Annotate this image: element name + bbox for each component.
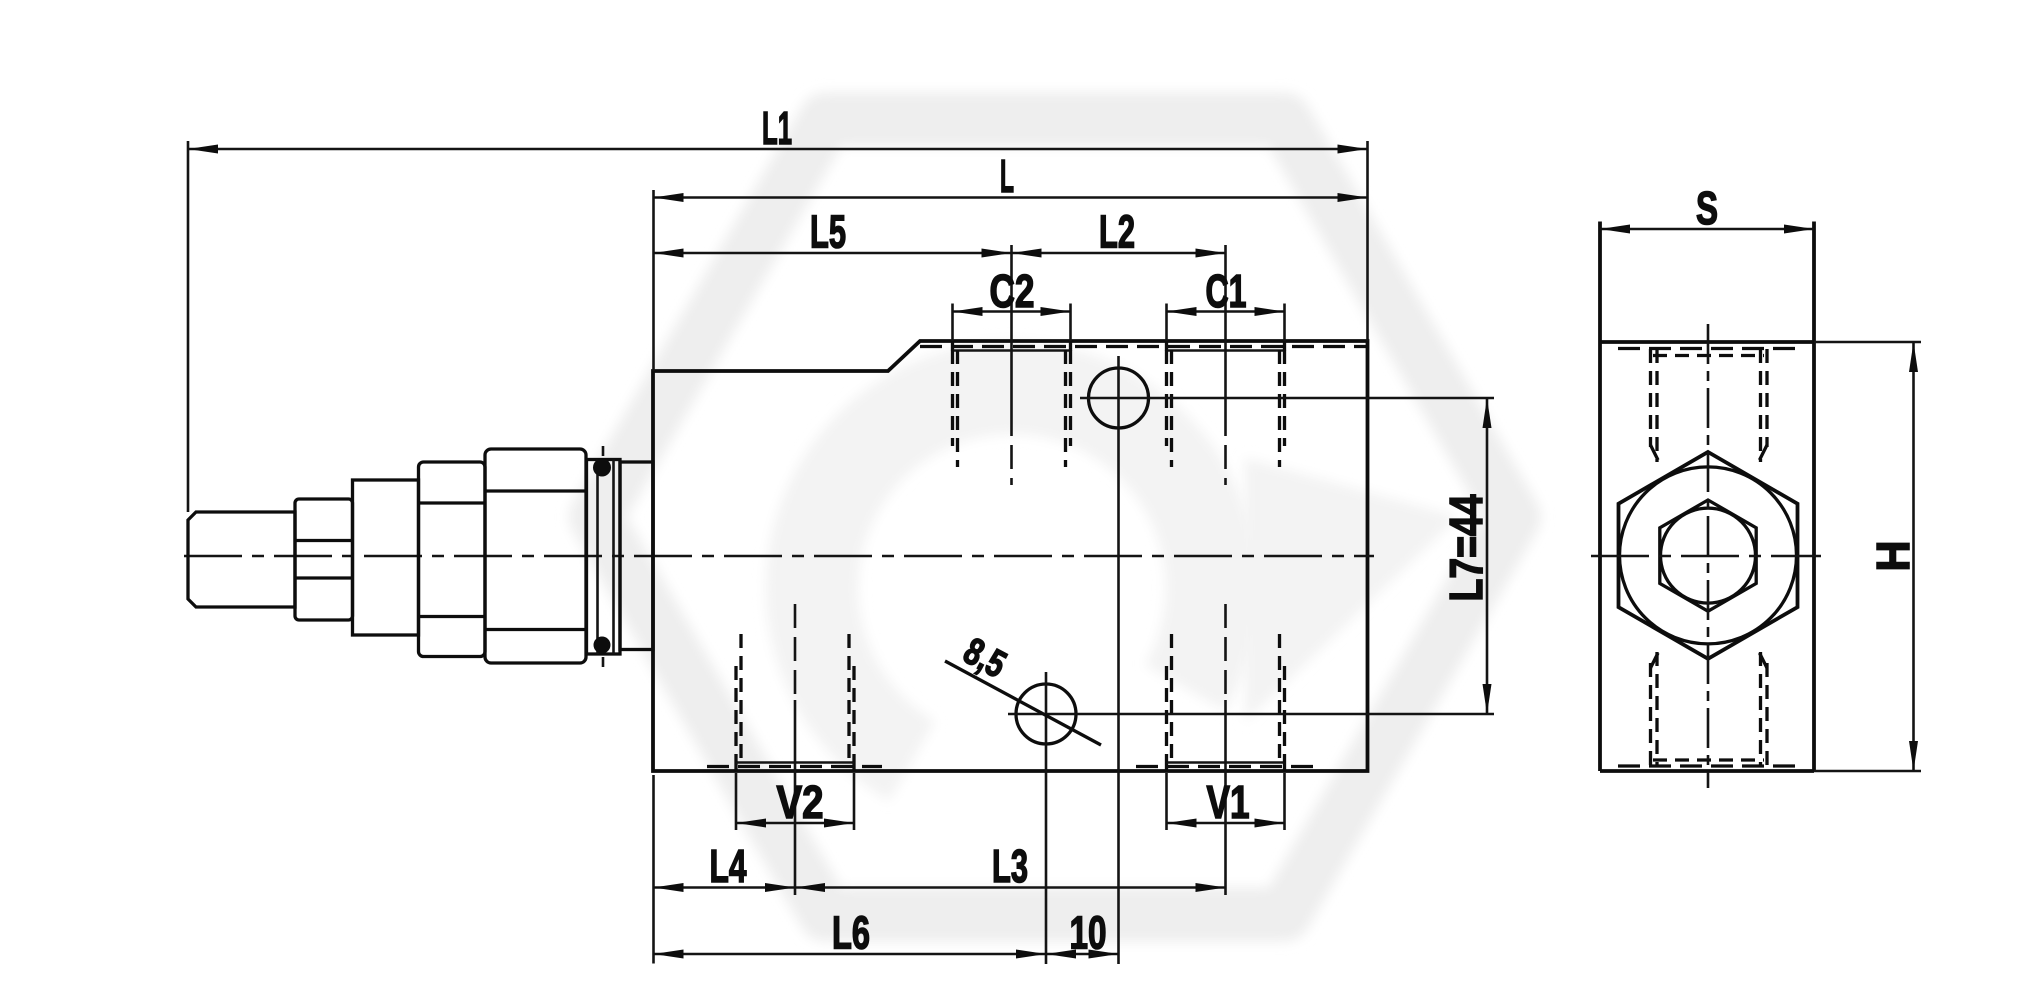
end view hex plug — [1619, 452, 1798, 659]
end view horizontal centerline — [1591, 555, 1821, 558]
end view vertical centerline — [1707, 324, 1710, 788]
adjuster sleeve cylinder — [353, 480, 419, 635]
svg-text:L7=44: L7=44 — [1440, 494, 1492, 601]
watermark hexagon ring — [596, 120, 1514, 915]
svg-text:C2: C2 — [990, 265, 1035, 317]
dimension H — [1814, 342, 1921, 771]
dimension L1 — [188, 102, 1368, 512]
dimension L — [654, 150, 1368, 371]
cartridge neck — [620, 462, 653, 650]
svg-text:L6: L6 — [832, 907, 870, 959]
dimension L7=44 — [1440, 398, 1492, 714]
port C1 — [1167, 245, 1285, 485]
end view outline — [1600, 222, 1814, 772]
upper hole vertical axis — [1117, 356, 1120, 964]
cartridge hex3 — [485, 449, 586, 663]
upper gauge hole circle — [1089, 368, 1149, 428]
main valve body outline — [653, 341, 1368, 771]
stem locknut hex1 — [295, 499, 353, 620]
dimension L3 — [795, 840, 1226, 892]
svg-text:L2: L2 — [1099, 206, 1135, 258]
svg-text:L3: L3 — [992, 840, 1028, 892]
dimension V1 — [1167, 773, 1285, 830]
dimension C1 — [1167, 265, 1285, 317]
port V2 — [707, 604, 882, 895]
O-ring top — [593, 459, 611, 477]
seal washer plate — [587, 460, 621, 655]
watermark right wedge — [1245, 458, 1458, 722]
port V1 — [1136, 604, 1316, 895]
lower hole vertical axis — [1045, 672, 1048, 964]
adjusting stem — [188, 512, 295, 607]
svg-text:L1: L1 — [762, 102, 792, 154]
port C2 — [953, 245, 1071, 485]
end view cavity hidden threads — [1618, 349, 1797, 767]
svg-text:L5: L5 — [810, 206, 846, 258]
locknut hex2 — [419, 462, 486, 657]
lower hole horizontal axis / L7 extension — [1008, 713, 1494, 716]
main horizontal centerline — [184, 555, 1374, 558]
leader 8,5 — [945, 630, 1101, 745]
dimension L2 — [1012, 206, 1226, 258]
svg-text:V1: V1 — [1207, 776, 1250, 828]
watermark inner ring — [812, 388, 1212, 761]
svg-text:S: S — [1696, 182, 1718, 234]
upper hole horizontal axis / L7 extension — [1080, 397, 1494, 400]
lower gauge hole circle — [1016, 684, 1076, 744]
svg-text:L: L — [1000, 150, 1014, 202]
svg-text:H: H — [1867, 541, 1919, 572]
dimension L6 — [654, 907, 1047, 959]
dimension V2 — [736, 773, 854, 830]
end view hex socket — [1660, 500, 1756, 611]
hidden bore dashed line below top face — [920, 345, 1367, 348]
dimension 10 — [1046, 907, 1119, 959]
svg-text:10: 10 — [1070, 907, 1107, 959]
dimension S — [1600, 182, 1814, 234]
O-ring center marks — [602, 446, 605, 456]
svg-text:8,5: 8,5 — [957, 630, 1013, 686]
svg-text:L4: L4 — [710, 840, 747, 892]
O-ring bottom — [594, 637, 611, 654]
svg-text:V2: V2 — [777, 776, 824, 828]
svg-text:C1: C1 — [1206, 265, 1247, 317]
dimension L5 — [654, 206, 1012, 258]
dimension L4 — [654, 775, 796, 964]
dimension C2 — [953, 265, 1071, 317]
